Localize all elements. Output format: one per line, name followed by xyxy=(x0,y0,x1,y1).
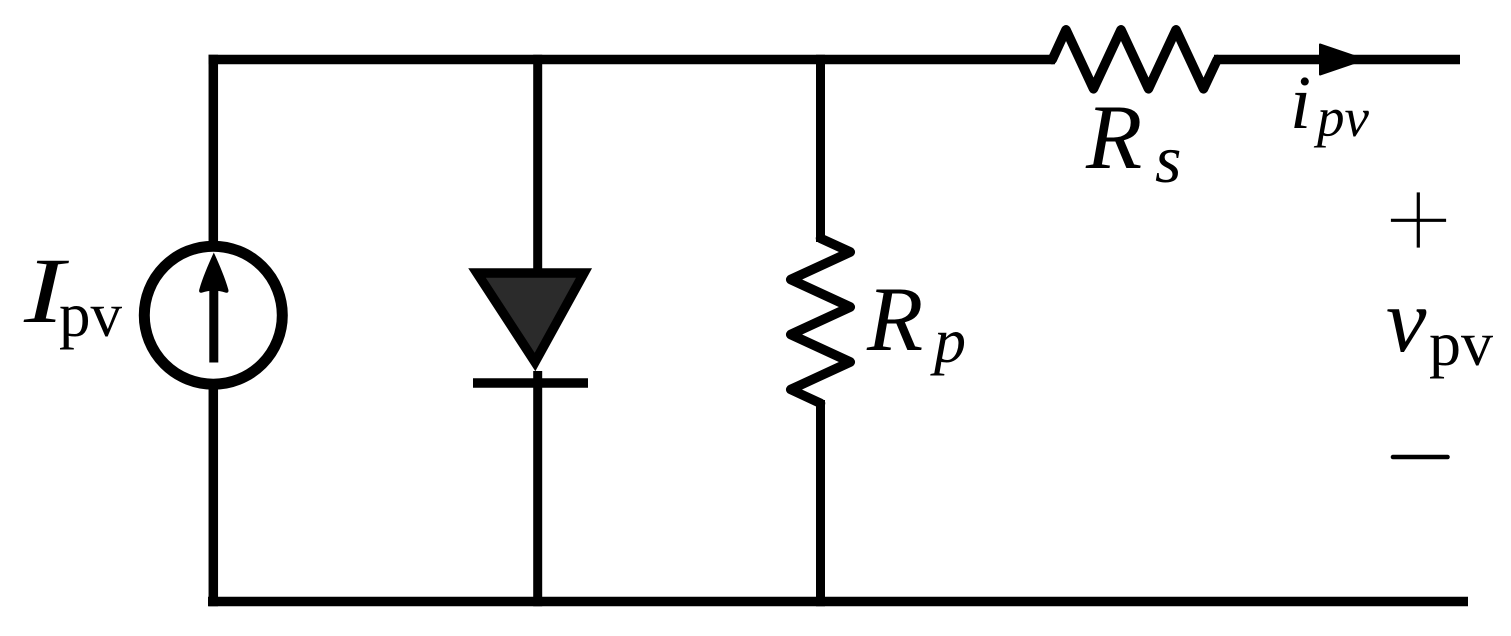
wire bottom horizontal (common bottom node) xyxy=(208,597,1468,607)
wire Rp top vertical xyxy=(816,55,825,242)
wire diode anode vertical xyxy=(533,55,542,272)
wire top horizontal right (Rs to output terminal) xyxy=(1214,55,1460,65)
wire left vertical lower (current source to bottom node) xyxy=(209,382,219,606)
svg-text:s: s xyxy=(1155,121,1181,197)
resistor Rs zigzag (horizontal, on top wire) xyxy=(1052,30,1217,89)
wire Rp bottom vertical xyxy=(816,400,825,606)
arrowhead i_pv on top wire (pointing right) xyxy=(1320,45,1364,75)
svg-text:v: v xyxy=(1386,270,1427,371)
svg-text:R: R xyxy=(866,268,923,370)
svg-text:pv: pv xyxy=(59,280,123,350)
svg-text:R: R xyxy=(1085,86,1142,188)
current source arrow shaft xyxy=(209,288,218,363)
svg-text:pv: pv xyxy=(1313,87,1370,148)
wire top horizontal left (node between source, diode, Rp to Rs) xyxy=(209,55,1056,65)
plus terminal sign xyxy=(1391,219,1446,222)
current source I_pv circle xyxy=(144,246,282,384)
diode D triangle (anode up, cathode down) xyxy=(477,273,584,362)
svg-text:pv: pv xyxy=(1429,308,1493,379)
svg-text:i: i xyxy=(1290,61,1311,145)
current source arrowhead (up) xyxy=(199,253,228,293)
svg-text:p: p xyxy=(930,305,966,376)
diode cathode bar xyxy=(473,378,588,388)
minus terminal sign xyxy=(1393,455,1448,460)
wire diode cathode vertical xyxy=(533,371,542,606)
wire left vertical upper (top node to current source) xyxy=(209,55,219,248)
resistor Rp zigzag (vertical) xyxy=(791,238,851,403)
